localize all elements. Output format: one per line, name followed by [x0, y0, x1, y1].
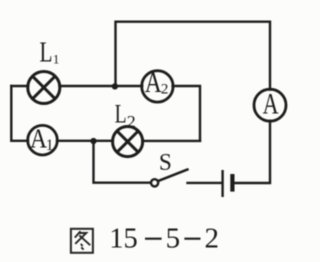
- svg-text:2: 2: [161, 82, 169, 98]
- svg-text:S: S: [159, 150, 172, 176]
- svg-text:1: 1: [46, 137, 54, 154]
- svg-text:A: A: [30, 123, 47, 154]
- svg-text:5: 5: [166, 223, 181, 255]
- svg-text:A: A: [263, 87, 279, 120]
- svg-text:2: 2: [127, 112, 136, 131]
- svg-text:1: 1: [53, 51, 60, 66]
- svg-text:A: A: [145, 66, 162, 99]
- svg-text:L: L: [40, 36, 53, 68]
- svg-text:2: 2: [205, 223, 220, 255]
- svg-text:15: 15: [109, 223, 138, 255]
- svg-text:L: L: [115, 100, 127, 129]
